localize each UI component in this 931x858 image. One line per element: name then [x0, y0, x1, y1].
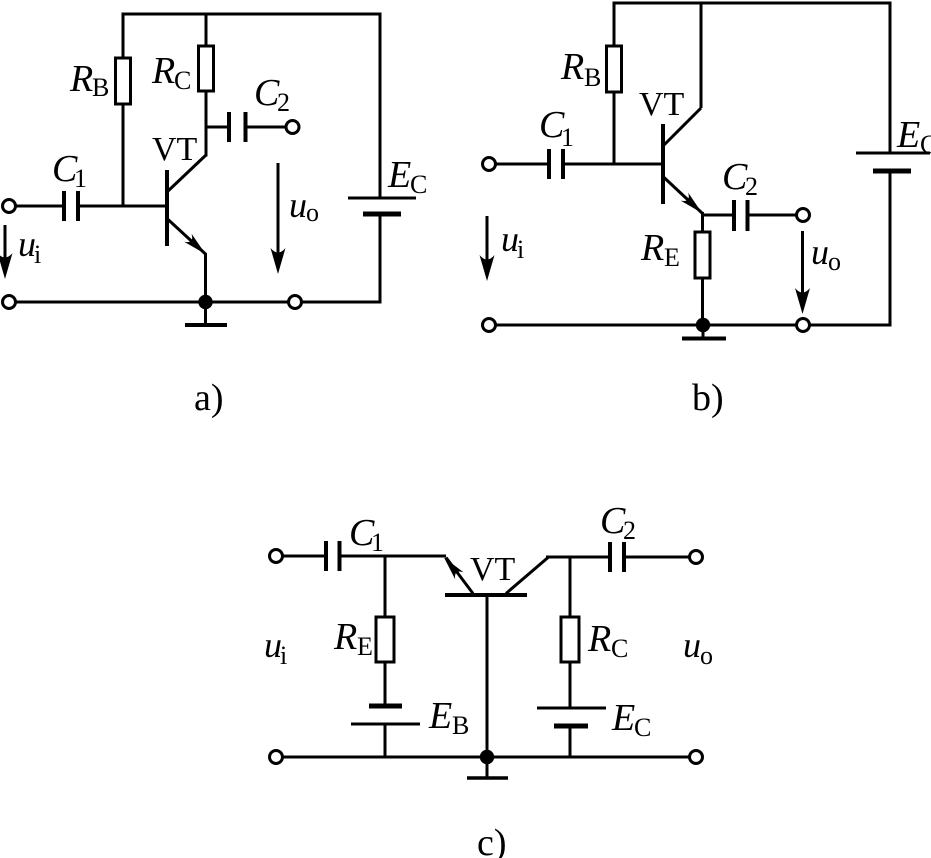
wire: RB bottom lead to base node (a) [122, 104, 125, 208]
svg-text:a): a) [194, 377, 224, 419]
label ui (b) [501, 219, 524, 264]
svg-text:E: E [664, 243, 680, 272]
label RB (a) [69, 58, 109, 102]
label uo (a) [289, 185, 319, 227]
svg-text:C: C [920, 130, 931, 159]
svg-text:E: E [896, 114, 920, 156]
wire: input to C1 (c) [283, 555, 327, 558]
terminal: output circle (b) [797, 209, 810, 222]
terminal: bottom-left circle (b) [483, 319, 496, 332]
transistor VT base bar (b) [661, 124, 665, 204]
wire: EC top lead (b) [889, 3, 892, 153]
svg-text:i: i [280, 641, 287, 670]
label RB (b) [560, 46, 601, 92]
label RC (a) [151, 50, 191, 95]
label EC (c) [611, 697, 651, 742]
battery EB (c) [351, 706, 420, 724]
terminal: output circle (c) [690, 551, 703, 564]
svg-text:R: R [560, 46, 584, 88]
svg-text:C: C [611, 634, 628, 663]
terminal: bottom-right circle (c) [690, 751, 703, 764]
svg-text:2: 2 [745, 172, 758, 201]
terminal: input circle (b) [483, 158, 496, 171]
svg-text:i: i [34, 240, 41, 269]
capacitor C1 (c) [326, 541, 340, 571]
terminal: bottom-left circle (a) [3, 296, 16, 309]
wire: RB bottom lead to base node (b) [613, 92, 616, 166]
svg-text:o: o [306, 198, 319, 227]
ground symbol (a) [185, 302, 227, 325]
wire: bottom rail (b) [496, 324, 892, 327]
junction dot ground node (c) [480, 750, 494, 764]
capacitor C1 (a) [64, 191, 78, 221]
label ui (a) [18, 224, 41, 269]
transistor VT base bar (a) [165, 170, 169, 246]
svg-text:E: E [387, 154, 411, 196]
label EC (b) [896, 114, 931, 159]
label RE (c) [333, 616, 373, 661]
svg-text:C: C [634, 713, 651, 742]
svg-text:VT: VT [470, 551, 516, 588]
ground symbol (b) [682, 325, 726, 339]
arrow ui (b) [480, 216, 495, 281]
wire: EC to bottom rail (c) [569, 726, 572, 757]
terminal: output bottom circle (b) [797, 319, 810, 332]
transistor VT collector lead (a) [168, 155, 207, 192]
svg-text:C: C [410, 170, 427, 199]
svg-text:R: R [69, 58, 93, 100]
transistor VT emitter lead with arrow (c) [440, 554, 473, 594]
junction dot ground node (a) [198, 295, 212, 309]
wire: input to C1 (b) [496, 163, 550, 166]
svg-text:1: 1 [74, 164, 87, 193]
svg-text:o: o [828, 247, 841, 276]
wire: EB to bottom rail (c) [384, 724, 387, 757]
wire: bottom rail (a) [16, 301, 382, 304]
terminal: input circle (c) [270, 550, 283, 563]
svg-text:B: B [584, 63, 601, 92]
label C1 (b) [539, 104, 574, 152]
wire: collector column RC to bend (a) [205, 91, 208, 157]
terminal: input circle (a) [3, 200, 16, 213]
label RC (c) [587, 618, 628, 663]
svg-text:u: u [289, 185, 307, 225]
terminal: output bottom circle (a) [289, 296, 302, 309]
resistor RC (a) [199, 46, 214, 91]
wire: C1 to emitter (c) [340, 555, 447, 558]
label C2 (a) [254, 72, 290, 117]
svg-text:B: B [92, 73, 109, 102]
label C1 (c) [349, 512, 384, 557]
wire: collector to C2 (c) [546, 556, 611, 559]
capacitor C2 (b) [734, 200, 748, 231]
svg-text:VT: VT [152, 131, 198, 168]
svg-text:R: R [587, 618, 611, 660]
terminal: C2 output circle (a) [286, 121, 299, 134]
label C1 (a) [52, 148, 87, 193]
label EC (a) [387, 154, 427, 199]
svg-text:1: 1 [561, 123, 574, 152]
resistor RC (c) [561, 617, 579, 662]
wire: top rail (a) [122, 13, 382, 16]
svg-text:2: 2 [623, 516, 636, 545]
svg-text:E: E [428, 695, 452, 737]
svg-text:i: i [517, 235, 524, 264]
battery EC (a) [348, 198, 416, 214]
wire: RB top lead (a) [122, 13, 125, 59]
wire: C2 to output terminal (b) [748, 214, 797, 217]
battery EC (c) [537, 708, 606, 726]
svg-text:C: C [174, 66, 191, 95]
wire: RC top lead (a) [205, 13, 208, 47]
wire: emitter node to RE (b) [701, 212, 704, 232]
svg-text:VT: VT [639, 86, 685, 123]
svg-text:u: u [683, 625, 701, 665]
label C2 (b) [722, 156, 758, 201]
wire: C1 to base (a) [78, 205, 167, 208]
wire: input to C1 (a) [16, 205, 65, 208]
capacitor C2 (c) [610, 542, 624, 572]
wire: RE to EB (c) [384, 662, 387, 706]
svg-text:R: R [151, 50, 175, 92]
battery EC (b) [856, 153, 930, 171]
junction dot ground node (b) [696, 318, 710, 332]
ground symbol (c) [467, 757, 508, 778]
wire: emitter down to ground node (a) [204, 253, 207, 302]
svg-text:E: E [357, 632, 373, 661]
label uo (c) [683, 625, 713, 670]
svg-text:R: R [333, 616, 357, 658]
svg-text:B: B [452, 711, 469, 740]
wire: RC to EC (c) [569, 662, 572, 708]
wire: EC bottom lead (a) [379, 214, 382, 304]
wire: EC top lead (a) [379, 14, 382, 198]
svg-text:2: 2 [277, 88, 290, 117]
transistor VT base bar (c) [445, 593, 527, 597]
transistor VT collector lead (b) [664, 108, 702, 146]
wire: emitter node to C2 (b) [703, 214, 735, 217]
arrow uo (a) [271, 163, 286, 274]
wire: collector up to top rail (b) [700, 3, 703, 108]
label ui (c) [264, 625, 287, 670]
resistor RB (a) [116, 58, 131, 104]
label uo (b) [811, 232, 841, 276]
label EB (c) [428, 695, 469, 740]
wire: bottom rail (c) [283, 756, 690, 759]
wire: RE bottom lead (b) [701, 278, 704, 325]
wire: node down to RE (c) [384, 556, 387, 617]
resistor RE (c) [376, 617, 394, 662]
wire: EC bottom lead (b) [889, 171, 892, 327]
wire: top rail (b) [613, 2, 892, 5]
label RE (b) [640, 227, 680, 272]
svg-text:R: R [640, 227, 664, 269]
wire: RB top lead (b) [613, 2, 616, 47]
svg-text:u: u [811, 232, 829, 272]
wire: C1 to base (b) [563, 163, 663, 166]
wire: C2 tap (a) [205, 126, 230, 129]
label C2 (c) [600, 500, 636, 545]
arrow uo (b) [795, 231, 810, 314]
terminal: bottom-left circle (c) [270, 751, 283, 764]
svg-text:o: o [700, 641, 713, 670]
resistor RB (b) [607, 46, 622, 92]
svg-text:1: 1 [371, 528, 384, 557]
arrow ui (a) [0, 225, 13, 279]
transistor VT emitter lead with arrow (a) [168, 219, 210, 258]
capacitor C2 (a) [229, 112, 246, 142]
capacitor C1 (b) [549, 149, 563, 179]
wire: node down to RC (c) [569, 557, 572, 617]
transistor VT collector lead (c) [506, 558, 548, 594]
wire: base down to ground node (c) [486, 595, 489, 757]
svg-text:b): b) [692, 377, 724, 419]
svg-text:c): c) [477, 822, 507, 858]
wire: C2 to output terminal (a) [246, 126, 287, 129]
resistor RE (b) [695, 232, 710, 278]
transistor VT emitter lead with arrow (b) [664, 177, 706, 217]
svg-text:E: E [611, 697, 635, 739]
wire: C2 to output terminal (c) [624, 556, 690, 559]
